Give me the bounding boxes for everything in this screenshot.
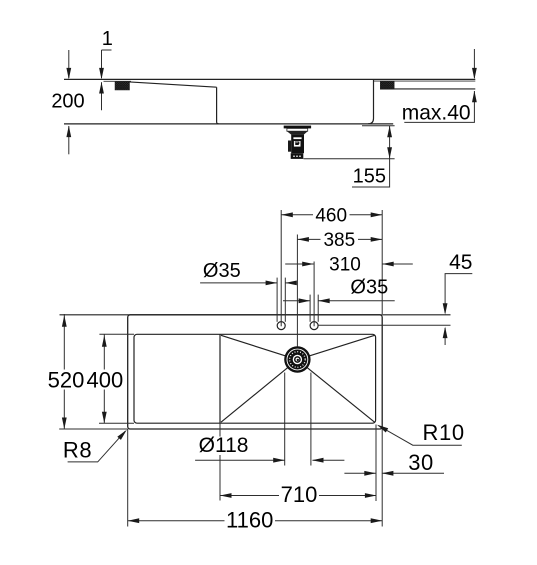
- dimension 710 line right: [319, 495, 376, 497]
- svg-text:460: 460: [315, 205, 347, 226]
- dimension 1160 right arrow: [371, 518, 383, 523]
- countertop bottom line (right): [394, 88, 475, 90]
- waste drain knurl ring: [290, 352, 306, 368]
- sink right edge lower extension: [381, 429, 383, 527]
- drain fitting body window: [294, 141, 301, 147]
- dimension left Ø35 line: [200, 282, 277, 284]
- svg-text:155: 155: [353, 166, 386, 188]
- right hole left-edge extension: [309, 295, 311, 322]
- svg-text:385: 385: [323, 230, 355, 251]
- svg-text:R8: R8: [63, 437, 92, 462]
- svg-text:310: 310: [329, 255, 361, 276]
- sink bottom line: [64, 123, 393, 125]
- dimension 460 line left: [281, 214, 313, 216]
- dimension 460 left arrow: [281, 212, 293, 217]
- dimension 30 right arrow (pointing left): [382, 471, 394, 476]
- dimension Ø118 left line: [195, 459, 285, 461]
- dimension 30 left line: [344, 472, 375, 474]
- dimension 30 left arrow (pointing right): [364, 471, 376, 476]
- dimension 1160 line right: [275, 520, 382, 522]
- bowl divider line: [219, 334, 221, 423]
- dimension 710 line left: [220, 495, 279, 497]
- dimension 45 up arrow: [443, 327, 448, 339]
- bowl slope line bottom-right: [297, 360, 374, 423]
- sink inner recess rect: [134, 334, 376, 423]
- dimension 30 right line: [382, 472, 444, 474]
- left hole left-edge extension: [276, 278, 278, 322]
- dimension 45 leader: [445, 274, 472, 313]
- dimension 155 upper reference line: [362, 125, 395, 127]
- drain fitting flange: [284, 126, 311, 129]
- dimension 520 up arrow: [62, 315, 67, 327]
- bowl left wall: [217, 87, 219, 124]
- dimension 155 upper arrow: [387, 126, 392, 138]
- dimension 460 line right: [350, 214, 383, 216]
- dimension 310 left arrow (pointing right): [302, 262, 314, 267]
- dimension max.40 upper line: [473, 49, 475, 78]
- dimension 155 lower reference line: [304, 158, 395, 160]
- dimension max.40 upper arrow: [472, 68, 477, 80]
- inner top extension line: [99, 333, 134, 335]
- dimension 45 down arrow: [443, 303, 448, 315]
- svg-text:200: 200: [51, 90, 84, 112]
- dimension 200 upper line: [68, 50, 70, 78]
- svg-text:400: 400: [87, 367, 124, 392]
- sink right edge upper extension: [381, 210, 383, 314]
- svg-text:710: 710: [281, 482, 318, 507]
- bowl left edge lower extension: [219, 423, 221, 436]
- bowl slope line bottom-left: [221, 360, 297, 423]
- drain fitting bottom nut dots: [293, 155, 295, 157]
- svg-text:1: 1: [102, 28, 113, 50]
- faucet hole left: [277, 322, 285, 330]
- dimension Ø118 right extension: [310, 373, 312, 466]
- bowl slope line top-left: [221, 335, 297, 359]
- waste drain center white: [296, 358, 300, 362]
- dimension Ø118 right arrow (pointing left): [312, 458, 324, 463]
- faucet hole center extension line (horizontal): [318, 324, 450, 326]
- dimension 520 line lower: [63, 390, 65, 430]
- top surface line: [64, 78, 475, 80]
- dimension 400 up arrow: [102, 335, 107, 347]
- label R10 arrow: [377, 425, 388, 433]
- dimension left Ø35 outer line: [285, 282, 295, 284]
- label R8 arrow: [117, 430, 127, 440]
- drain fitting taper: [287, 131, 308, 134]
- drainer sloped surface line: [130, 82, 217, 87]
- left hole right-edge extension: [284, 278, 286, 322]
- svg-text:1160: 1160: [226, 507, 273, 532]
- countertop surface offset line right segment: [374, 80, 475, 82]
- dimension 400 line upper: [103, 334, 105, 369]
- bowl right wall: [368, 80, 374, 124]
- right rim hatch block: [380, 81, 394, 89]
- dimension 200 lower arrow: [66, 126, 71, 138]
- waste drain inner black ring: [294, 356, 301, 363]
- svg-text:R10: R10: [423, 420, 465, 445]
- dimension 520 line upper: [63, 314, 65, 370]
- right hole center extension: [313, 262, 315, 327]
- drain center extension: [296, 235, 298, 347]
- faucet hole right: [310, 322, 318, 330]
- dimension 385 line left: [297, 238, 320, 240]
- svg-text:Ø118: Ø118: [199, 434, 249, 457]
- left rim hatch block: [115, 81, 130, 90]
- dimension 710 left arrow: [220, 493, 232, 498]
- waste drain white circle line: [287, 349, 308, 370]
- dimension 310 left outside line: [285, 263, 314, 265]
- svg-text:Ø35: Ø35: [203, 260, 241, 282]
- right hole right-edge extension: [317, 295, 319, 322]
- svg-text:45: 45: [449, 251, 472, 274]
- dimension Ø118 left arrow (pointing right): [273, 458, 285, 463]
- dimension 1160 left arrow: [128, 518, 140, 523]
- bowl right edge lower extension: [375, 425, 377, 502]
- label R10 leader: [379, 426, 462, 446]
- drain fitting body: [291, 135, 304, 154]
- dimension 520 down arrow: [62, 418, 67, 430]
- sink outer rect: [128, 315, 383, 429]
- dimension 1 leader tick: [102, 49, 112, 51]
- dimension 155 lower arrow: [387, 147, 392, 159]
- dimension left Ø35 right arrow (pointing right): [266, 281, 278, 286]
- dimension Ø118 left extension: [284, 373, 286, 466]
- dimension max.40 lower arrow: [472, 91, 477, 103]
- dimension 1 upper line: [101, 50, 103, 78]
- dimension max.40 leader: [404, 91, 474, 122]
- dimension 155 line: [389, 126, 391, 159]
- dimension right Ø35 right arrow (pointing left): [318, 298, 330, 303]
- dimension 200 lower line: [68, 126, 70, 154]
- svg-text:max.40: max.40: [402, 101, 471, 124]
- dimension 1160 line left: [128, 520, 225, 522]
- svg-text:Ø35: Ø35: [350, 276, 388, 298]
- dimension 155 leader: [352, 159, 390, 187]
- dimension 385 line right: [358, 238, 382, 240]
- dimension Ø118 right line: [313, 459, 345, 461]
- dimension 385 left arrow: [297, 237, 309, 242]
- dimension 200 upper arrow: [66, 68, 71, 80]
- dimension right Ø35 left line: [283, 300, 310, 302]
- sink left edge lower extension: [127, 429, 129, 527]
- waste drain inner white ring: [293, 355, 302, 364]
- countertop edge line: [60, 314, 451, 316]
- svg-text:520: 520: [48, 367, 85, 392]
- waste drain center dot: [297, 359, 299, 361]
- dimension left Ø35 left arrow (pointing left): [285, 281, 297, 286]
- drain fitting body window mark: [295, 142, 299, 144]
- drain fitting body slit: [293, 137, 301, 139]
- drain fitting left tab: [288, 141, 291, 152]
- countertop surface offset line (1mm below) left segment: [104, 80, 132, 82]
- dimension 385 right arrow: [371, 237, 383, 242]
- dimension 310 right outside line: [382, 263, 413, 265]
- left hole center extension: [280, 210, 282, 326]
- dimension 460 right arrow: [371, 212, 383, 217]
- dimension 400 line lower: [103, 390, 105, 424]
- dimension right Ø35 right line: [318, 300, 395, 302]
- dimension 45 lower line: [444, 328, 446, 345]
- svg-text:30: 30: [408, 450, 433, 475]
- outer bottom extension line: [59, 428, 128, 430]
- drain fitting threaded band: [287, 128, 308, 131]
- bowl slope line top-right: [297, 335, 374, 359]
- label R8 leader: [68, 431, 126, 462]
- drain fitting bottom nut: [291, 153, 304, 159]
- dimension 1 lower line: [101, 82, 103, 110]
- dimension right Ø35 left arrow (pointing right): [299, 298, 311, 303]
- inner bottom extension line: [99, 422, 134, 424]
- dimension 1 lower arrow: [99, 82, 104, 94]
- dimension 710 right arrow: [365, 493, 377, 498]
- dimension 1 upper arrow: [99, 68, 104, 80]
- dimension 310 right arrow (pointing left): [382, 262, 394, 267]
- dimension 400 down arrow: [102, 412, 107, 424]
- waste drain outer ring: [284, 346, 310, 372]
